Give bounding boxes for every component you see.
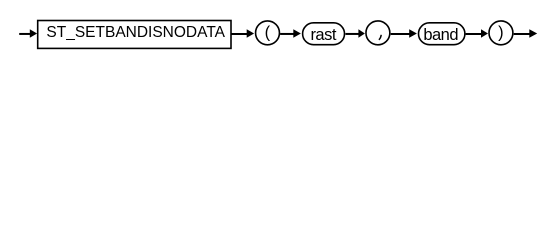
- box ST_SETBANDISNODATA: [38, 21, 231, 49]
- svg-text:ST_SETBANDISNODATA: ST_SETBANDISNODATA: [46, 24, 225, 41]
- arrow into comma: [358, 29, 365, 38]
- wire band to ): [466, 33, 482, 35]
- arrow into band: [409, 29, 417, 38]
- wire out: [514, 33, 530, 35]
- wire box to (: [231, 33, 248, 35]
- terminal comma: [366, 21, 390, 45]
- arrow out: [529, 29, 537, 38]
- node band: [419, 23, 465, 45]
- wire lead-in: [19, 33, 30, 35]
- node rast: [303, 23, 345, 45]
- wire rast to comma: [346, 33, 360, 35]
- arrow into ): [481, 29, 488, 38]
- wire ( to rast: [280, 33, 294, 35]
- svg-text:band: band: [423, 26, 458, 44]
- terminal (: [256, 21, 280, 45]
- svg-text:): ): [498, 23, 504, 41]
- arrow into (: [247, 29, 254, 38]
- terminal ): [489, 21, 513, 45]
- arrow into box: [30, 29, 37, 38]
- wire comma to band: [391, 33, 410, 35]
- svg-text:(: (: [265, 23, 271, 41]
- arrow into rast: [293, 29, 301, 38]
- svg-text:rast: rast: [310, 26, 336, 44]
